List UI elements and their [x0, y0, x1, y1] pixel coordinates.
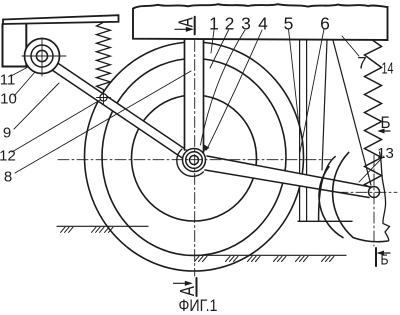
svg-text:4: 4 [258, 14, 268, 34]
svg-text:6: 6 [320, 14, 330, 34]
svg-text:3: 3 [241, 14, 251, 34]
svg-text:А: А [177, 286, 199, 296]
svg-text:Б: Б [381, 113, 391, 132]
svg-text:9: 9 [3, 125, 11, 142]
svg-text:А: А [176, 17, 198, 27]
svg-text:Б: Б [381, 252, 389, 269]
svg-text:8: 8 [4, 169, 12, 186]
svg-text:14: 14 [382, 61, 394, 78]
svg-text:13: 13 [377, 145, 394, 162]
svg-text:5: 5 [284, 14, 294, 34]
svg-text:12: 12 [0, 148, 16, 165]
svg-text:7: 7 [357, 54, 366, 73]
svg-text:10: 10 [0, 91, 17, 108]
svg-text:1: 1 [209, 14, 219, 34]
svg-text:2: 2 [225, 14, 235, 34]
svg-text:ФИГ.1: ФИГ.1 [179, 296, 218, 315]
svg-text:11: 11 [0, 72, 15, 89]
